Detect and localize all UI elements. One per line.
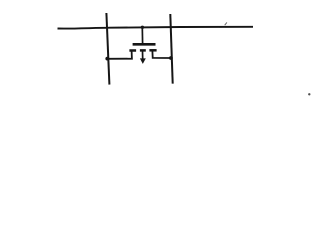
node drain junction dot	[169, 56, 173, 60]
stray speck bottom right	[308, 93, 310, 95]
wire source lead (left elbow to left bit line)	[108, 51, 132, 59]
wire bit line right (right vertical)	[170, 14, 172, 84]
wire word line (top horizontal rail)	[58, 27, 254, 29]
wire bit line left (left vertical)	[106, 13, 109, 85]
transistor Q1 channel segment left	[129, 49, 136, 52]
wire drain lead (right elbow to right bit line)	[152, 51, 170, 58]
transistor Q1 channel segment middle	[140, 49, 146, 52]
transistor Q1 body arrowhead (pointing down)	[140, 58, 146, 64]
node source junction dot	[105, 57, 109, 61]
transistor Q1 gate lead wire	[141, 28, 143, 44]
stray tick mark above word line	[225, 22, 227, 25]
transistor Q1 channel segment right	[149, 49, 156, 52]
node gate junction dot on word line	[141, 26, 144, 29]
transistor Q1 gate bar	[133, 43, 156, 46]
transistor Q1 body arrow shaft	[142, 51, 144, 59]
